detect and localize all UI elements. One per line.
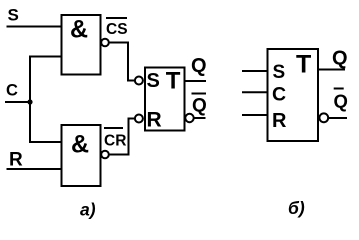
wire C to lower NAND input <box>30 102 62 142</box>
svg-text:Q: Q <box>192 95 207 116</box>
label CR overline <box>104 127 123 129</box>
svg-text:Q: Q <box>332 48 348 70</box>
NAND gate 1 body <box>62 15 101 75</box>
wire NAND2 output to trigger R <box>109 119 135 155</box>
trigger 1 inverted output bubble <box>185 114 193 122</box>
label CS overline <box>106 17 127 19</box>
svg-text:CR: CR <box>104 132 126 149</box>
wire C input b <box>242 91 268 93</box>
svg-text:C: C <box>272 84 286 106</box>
wire NAND1 output to trigger S <box>109 43 135 81</box>
wire S input <box>7 26 62 28</box>
svg-text:T: T <box>166 68 181 95</box>
trigger 1 Q output wire <box>185 80 207 82</box>
svg-text:T: T <box>296 51 311 79</box>
label Q-bar overline trigger 2 <box>334 88 344 90</box>
wire C to upper NAND input <box>30 57 62 103</box>
svg-text:S: S <box>273 62 286 83</box>
NAND gate 2 output bubble <box>101 151 109 159</box>
svg-text:б): б) <box>288 198 305 218</box>
svg-text:S: S <box>8 6 19 25</box>
svg-text:R: R <box>147 108 162 131</box>
svg-text:&: & <box>70 16 88 44</box>
svg-text:Q: Q <box>334 90 348 111</box>
trigger 1 S input bubble <box>135 77 143 85</box>
svg-text:&: & <box>71 131 89 159</box>
wire S input b <box>242 70 268 72</box>
wire R input b <box>242 114 268 116</box>
trigger 1 R input bubble <box>135 115 143 123</box>
NAND gate 1 output bubble <box>101 39 109 47</box>
trigger 2 Q-bar output wire <box>328 117 347 119</box>
svg-text:R: R <box>272 110 287 132</box>
RS trigger T1 body <box>145 68 185 131</box>
trigger 2 inverted output bubble <box>319 113 328 122</box>
NAND gate 2 body <box>62 125 101 186</box>
trigger 1 Q-bar output wire <box>194 117 206 119</box>
wire C input <box>5 101 30 103</box>
svg-text:а): а) <box>80 200 96 220</box>
svg-text:C: C <box>6 81 18 99</box>
RS trigger T2 body <box>268 49 319 141</box>
junction node C <box>27 99 32 104</box>
svg-text:R: R <box>9 150 23 171</box>
svg-text:CS: CS <box>106 21 128 38</box>
svg-text:Q: Q <box>191 55 207 77</box>
trigger 2 Q output wire <box>319 69 346 71</box>
label Q-bar overline trigger 1 <box>192 93 207 95</box>
wire R input <box>7 168 62 170</box>
svg-text:S: S <box>147 70 160 92</box>
